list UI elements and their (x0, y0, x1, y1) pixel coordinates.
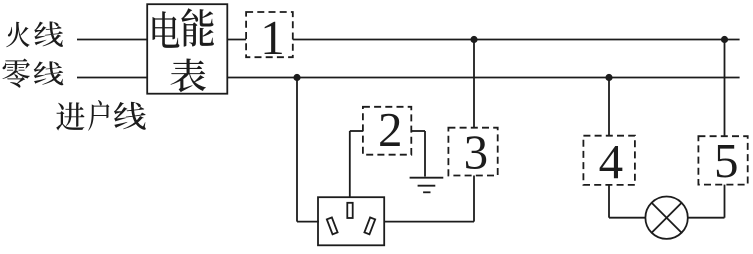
svg-text:1: 1 (260, 10, 285, 65)
svg-text:2: 2 (378, 102, 403, 157)
svg-text:5: 5 (714, 133, 739, 188)
svg-text:3: 3 (464, 125, 489, 180)
svg-text:4: 4 (599, 134, 624, 189)
